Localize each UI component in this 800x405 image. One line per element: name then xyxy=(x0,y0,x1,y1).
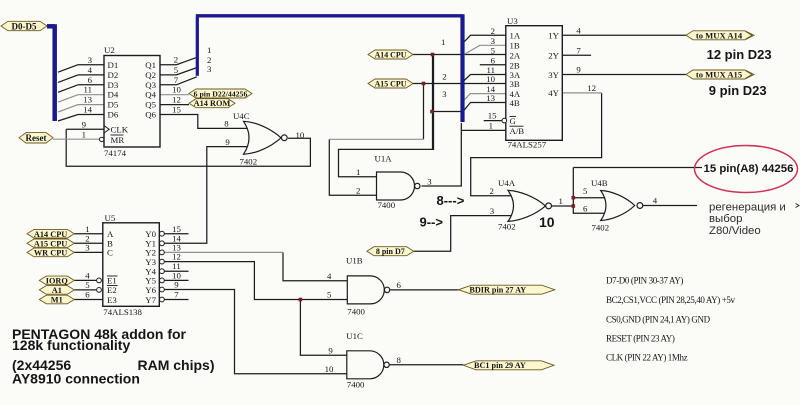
svg-text:CLK: CLK xyxy=(111,125,129,135)
svg-text:9-->: 9--> xyxy=(420,215,444,230)
svg-text:регенерация и: регенерация и xyxy=(709,202,786,214)
svg-text:7: 7 xyxy=(576,45,581,55)
svg-text:1: 1 xyxy=(82,129,86,139)
svg-text:10: 10 xyxy=(325,364,334,374)
svg-text:D1: D1 xyxy=(108,60,119,70)
svg-text:1: 1 xyxy=(85,224,89,234)
svg-text:74174: 74174 xyxy=(104,148,127,158)
svg-text:7400: 7400 xyxy=(347,306,365,316)
svg-text:BC1 pin 29 AY: BC1 pin 29 AY xyxy=(474,361,526,370)
svg-text:11: 11 xyxy=(84,85,92,95)
svg-text:D2: D2 xyxy=(108,70,119,80)
svg-text:U4C: U4C xyxy=(233,111,250,121)
svg-text:74ALS138: 74ALS138 xyxy=(103,307,142,317)
svg-text:6: 6 xyxy=(85,290,90,300)
svg-text:4B: 4B xyxy=(510,98,520,108)
svg-text:13: 13 xyxy=(83,95,92,105)
svg-text:D0-D5: D0-D5 xyxy=(12,21,37,31)
svg-text:15: 15 xyxy=(488,110,497,120)
svg-text:3B: 3B xyxy=(510,79,520,89)
svg-text:AY8910 connection: AY8910 connection xyxy=(12,371,140,387)
svg-text:U1B: U1B xyxy=(346,255,363,265)
svg-text:D6: D6 xyxy=(108,110,119,120)
svg-text:9: 9 xyxy=(174,280,179,290)
svg-text:3: 3 xyxy=(85,243,90,253)
svg-text:Q2: Q2 xyxy=(145,70,156,80)
svg-text:4: 4 xyxy=(327,271,332,281)
svg-text:5: 5 xyxy=(583,186,588,196)
svg-text:7: 7 xyxy=(174,75,179,85)
svg-text:E2: E2 xyxy=(107,285,117,295)
svg-text:2: 2 xyxy=(442,72,446,82)
svg-text:7402: 7402 xyxy=(240,157,258,167)
svg-text:7400: 7400 xyxy=(347,380,365,390)
svg-text:3: 3 xyxy=(490,206,495,216)
svg-text:A: A xyxy=(107,229,114,239)
svg-text:15: 15 xyxy=(172,105,181,115)
svg-text:3: 3 xyxy=(88,55,93,65)
svg-text:A1: A1 xyxy=(52,286,62,295)
svg-text:U4A: U4A xyxy=(498,178,516,188)
svg-text:5: 5 xyxy=(174,65,179,75)
svg-text:Q6: Q6 xyxy=(145,110,156,120)
svg-text:6: 6 xyxy=(583,204,588,214)
svg-text:7402: 7402 xyxy=(498,222,516,232)
svg-text:9: 9 xyxy=(328,345,333,355)
svg-text:3: 3 xyxy=(207,64,212,74)
svg-text:1: 1 xyxy=(356,167,360,177)
svg-text:2: 2 xyxy=(356,185,360,195)
svg-text:128k functionality: 128k functionality xyxy=(12,337,130,353)
svg-text:U5: U5 xyxy=(105,213,116,223)
svg-text:BC2,CS1,VCC (PIN 28,25,40 AY): BC2,CS1,VCC (PIN 28,25,40 AY) +5v xyxy=(606,295,735,305)
svg-text:Reset: Reset xyxy=(26,133,47,143)
svg-text:3: 3 xyxy=(442,89,447,99)
svg-text:выбор: выбор xyxy=(709,213,742,225)
svg-text:A15 CPU: A15 CPU xyxy=(34,239,67,248)
svg-text:MR: MR xyxy=(111,135,125,145)
svg-text:4: 4 xyxy=(88,65,93,75)
svg-text:10: 10 xyxy=(539,214,555,230)
svg-text:9: 9 xyxy=(82,119,87,129)
svg-text:Q4: Q4 xyxy=(145,90,156,100)
svg-text:E3: E3 xyxy=(107,295,117,305)
svg-text:D5: D5 xyxy=(108,100,119,110)
svg-text:12: 12 xyxy=(172,95,181,105)
svg-text:6: 6 xyxy=(88,75,93,85)
svg-text:U2: U2 xyxy=(104,45,115,55)
svg-text:2: 2 xyxy=(491,26,495,36)
svg-text:14: 14 xyxy=(83,105,92,115)
svg-text:4: 4 xyxy=(653,196,658,206)
svg-text:U1A: U1A xyxy=(375,153,393,163)
svg-text:A15 CPU: A15 CPU xyxy=(375,79,407,88)
svg-text:1: 1 xyxy=(559,196,563,206)
svg-text:13: 13 xyxy=(486,93,495,103)
svg-text:1: 1 xyxy=(441,37,445,47)
svg-text:5: 5 xyxy=(85,280,90,290)
svg-text:8: 8 xyxy=(397,355,402,365)
svg-text:74ALS257: 74ALS257 xyxy=(508,139,547,149)
svg-text:15: 15 xyxy=(172,224,181,234)
svg-text:to MUX A15: to MUX A15 xyxy=(696,70,742,80)
svg-text:2Y: 2Y xyxy=(548,50,559,60)
svg-text:3Y: 3Y xyxy=(548,70,559,80)
svg-text:8: 8 xyxy=(224,119,229,129)
svg-text:1: 1 xyxy=(489,121,493,131)
svg-text:E1: E1 xyxy=(107,276,117,286)
svg-text:5: 5 xyxy=(491,46,496,56)
svg-text:10: 10 xyxy=(296,130,305,140)
svg-text:4Y: 4Y xyxy=(548,88,559,98)
svg-text:IORQ: IORQ xyxy=(46,277,69,286)
svg-text:C: C xyxy=(107,248,113,258)
svg-text:A14 CPU: A14 CPU xyxy=(375,51,407,60)
svg-text:10: 10 xyxy=(486,74,495,84)
svg-text:8--->: 8---> xyxy=(437,193,465,208)
svg-text:1B: 1B xyxy=(510,41,520,51)
svg-text:Z80/Video: Z80/Video xyxy=(709,225,761,237)
svg-text:2A: 2A xyxy=(510,50,521,60)
svg-text:6 pin D22/44256: 6 pin D22/44256 xyxy=(194,89,248,98)
svg-text:Y7: Y7 xyxy=(145,295,156,305)
svg-text:Y6: Y6 xyxy=(145,285,156,295)
svg-text:U1C: U1C xyxy=(346,331,363,341)
svg-text:M1: M1 xyxy=(51,296,63,305)
svg-text:A14 CPU: A14 CPU xyxy=(34,230,67,239)
svg-text:9: 9 xyxy=(576,65,581,75)
svg-text:1Y: 1Y xyxy=(548,31,559,41)
svg-text:12 pin D23: 12 pin D23 xyxy=(707,47,772,62)
svg-text:G: G xyxy=(510,116,517,126)
svg-text:to MUX A14: to MUX A14 xyxy=(696,30,743,40)
svg-text:BDIR pin 27 AY: BDIR pin 27 AY xyxy=(469,286,526,295)
svg-text:15 pin(A8) 44256: 15 pin(A8) 44256 xyxy=(704,163,794,175)
svg-text:Q5: Q5 xyxy=(145,100,156,110)
svg-text:1A: 1A xyxy=(510,31,521,41)
svg-text:A14 ROM: A14 ROM xyxy=(194,99,231,108)
svg-text:3: 3 xyxy=(427,176,432,186)
svg-text:10: 10 xyxy=(172,85,181,95)
svg-text:2: 2 xyxy=(174,55,178,65)
svg-text:7: 7 xyxy=(174,290,179,300)
svg-text:2: 2 xyxy=(490,186,494,196)
svg-text:Q3: Q3 xyxy=(145,80,156,90)
svg-text:Y0: Y0 xyxy=(145,229,156,239)
svg-text:1: 1 xyxy=(207,45,211,55)
svg-text:A/B: A/B xyxy=(510,126,525,136)
svg-text:WR CPU: WR CPU xyxy=(34,249,67,258)
svg-text:Q1: Q1 xyxy=(145,60,156,70)
svg-text:CS0,GND (PIN 24,1 AY) GND: CS0,GND (PIN 24,1 AY) GND xyxy=(606,315,711,325)
svg-text:U4B: U4B xyxy=(591,178,608,188)
svg-text:2B: 2B xyxy=(510,60,520,70)
svg-text:9: 9 xyxy=(225,137,230,147)
svg-text:8 pin D7: 8 pin D7 xyxy=(376,247,405,256)
svg-text:D3: D3 xyxy=(108,80,119,90)
svg-text:12: 12 xyxy=(587,83,596,93)
svg-text:4: 4 xyxy=(85,271,90,281)
svg-text:CLK (PIN 22 AY) 1Mhz: CLK (PIN 22 AY) 1Mhz xyxy=(606,353,688,363)
svg-text:4: 4 xyxy=(576,26,581,36)
svg-text:9 pin D23: 9 pin D23 xyxy=(709,83,767,98)
svg-text:D7-D0 (PIN 30-37 AY): D7-D0 (PIN 30-37 AY) xyxy=(606,276,683,286)
svg-text:RAM chips): RAM chips) xyxy=(138,357,215,373)
svg-text:D4: D4 xyxy=(108,90,119,100)
svg-text:7400: 7400 xyxy=(378,200,396,210)
svg-text:6: 6 xyxy=(397,280,402,290)
svg-text:3: 3 xyxy=(491,36,496,46)
svg-text:RESET (PIN 23 AY): RESET (PIN 23 AY) xyxy=(606,334,675,344)
svg-text:7402: 7402 xyxy=(592,222,610,232)
svg-text:5: 5 xyxy=(327,290,332,300)
svg-text:U3: U3 xyxy=(507,16,518,26)
